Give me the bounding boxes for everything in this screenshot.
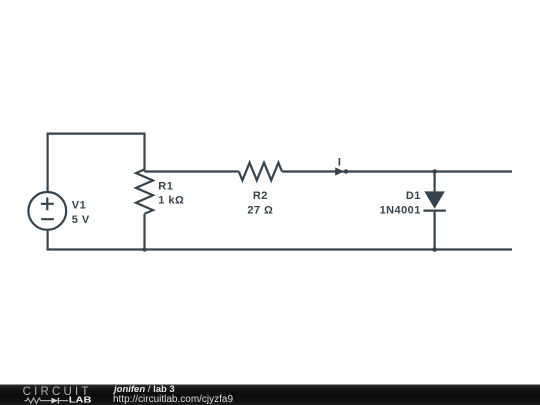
CircuitLab logo resistor-diode glyph bbox=[24, 398, 68, 404]
wire top loop from V1 to R1 bbox=[48, 134, 145, 192]
footer bar bbox=[0, 385, 540, 405]
svg-text:27 Ω: 27 Ω bbox=[247, 204, 273, 216]
wire R2 to right edge bbox=[282, 170, 512, 172]
svg-text:5 V: 5 V bbox=[72, 214, 90, 226]
svg-text:D1: D1 bbox=[406, 190, 421, 202]
svg-text:LAB: LAB bbox=[69, 395, 92, 404]
resistor R2 bbox=[239, 163, 282, 181]
wire R1 to R2 bbox=[145, 170, 239, 172]
svg-text:I: I bbox=[338, 157, 341, 169]
junction node at R1 bottom bbox=[142, 247, 146, 251]
svg-text:R1: R1 bbox=[158, 180, 173, 192]
svg-text:1N4001: 1N4001 bbox=[380, 204, 421, 216]
resistor R1 bbox=[136, 169, 153, 249]
junction node at D1 top bbox=[432, 169, 437, 174]
current arrow I bbox=[335, 167, 348, 175]
svg-text:http://circuitlab.com/cjyzfa9: http://circuitlab.com/cjyzfa9 bbox=[113, 394, 233, 405]
svg-text:R2: R2 bbox=[253, 190, 268, 202]
diode D1 bbox=[423, 172, 446, 250]
svg-text:V1: V1 bbox=[72, 200, 86, 212]
wire V1 bottom to ground rail bbox=[48, 230, 512, 249]
junction node at D1 bottom bbox=[432, 247, 437, 252]
svg-text:1 kΩ: 1 kΩ bbox=[158, 194, 184, 206]
voltage source V1 bbox=[28, 192, 66, 230]
